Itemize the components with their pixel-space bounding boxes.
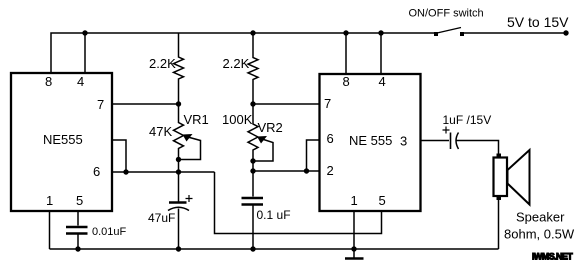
wire: U1 pin 4 riser — [84, 33, 86, 72]
node: VR2 bottom / C2 top junction — [250, 168, 255, 173]
node: pin6 jog junction — [304, 168, 309, 173]
svg-text:8: 8 — [45, 74, 52, 89]
svg-text:6: 6 — [93, 164, 100, 179]
node: U2 pin1 on ground rail — [351, 246, 356, 251]
svg-text:6: 6 — [327, 131, 334, 146]
wire: U1 pin 2 stub to pin 6 wire — [113, 140, 126, 172]
wire: +V rail from U1 pin 8 to switch — [51, 33, 435, 72]
node: C1 bottom on ground rail — [176, 246, 181, 251]
wire: ground rail — [50, 248, 499, 250]
node: VR1 wiper bottom junction — [176, 157, 181, 162]
node: supply terminal dot — [563, 30, 568, 35]
svg-text:2.2K: 2.2K — [223, 56, 250, 71]
wire: U1 pin 1 to ground rail — [49, 212, 51, 250]
node: R2/VR2/pin7 junction — [250, 101, 255, 106]
svg-text:1uF /15V: 1uF /15V — [443, 113, 492, 127]
potentiometer VR1 47K — [174, 104, 201, 172]
node: R2 top junction on +V rail — [250, 30, 255, 35]
svg-text:1: 1 — [351, 193, 358, 208]
svg-text:8: 8 — [343, 74, 350, 89]
wire: U1 pin 6 run — [113, 171, 215, 173]
svg-text:0.1 uF: 0.1 uF — [257, 208, 291, 222]
svg-text:5V to 15V: 5V to 15V — [507, 14, 569, 30]
svg-text:NE555: NE555 — [43, 132, 83, 147]
svg-text:47K: 47K — [149, 124, 172, 139]
svg-text:NE 555: NE 555 — [349, 133, 392, 148]
node: U1 pin 4 junction on +V rail — [82, 30, 87, 35]
speaker LS1 — [494, 150, 530, 205]
wire: U2 pin 1 to ground — [353, 212, 355, 259]
op-amp U2 NE555 box — [320, 74, 421, 211]
wire: U2 pin 4 riser — [380, 33, 382, 73]
wire: U1 pin 7 to R1/VR1 junction — [113, 103, 179, 105]
svg-text:8ohm, 0.5W: 8ohm, 0.5W — [504, 227, 575, 242]
svg-text:100K: 100K — [222, 112, 253, 127]
svg-text:4: 4 — [379, 74, 386, 89]
wire: U2 pin 8 riser — [345, 33, 347, 73]
node: R1/VR1/pin7 junction — [176, 101, 181, 106]
node: U2 pin 4 junction on +V rail — [378, 30, 383, 35]
wire: U2 pin 6 jog — [307, 140, 319, 171]
capacitor C4 1uF/15V — [443, 127, 459, 150]
capacitor C1 47uF — [168, 172, 193, 249]
wire: U2 pin 7 to R2/VR2 junction — [253, 103, 319, 105]
svg-text:Speaker: Speaker — [516, 210, 565, 225]
svg-text:2: 2 — [327, 163, 334, 178]
svg-text:7: 7 — [324, 96, 331, 111]
svg-text:4: 4 — [77, 74, 84, 89]
capacitor C2 0.1uF — [242, 171, 264, 249]
node: pin2 stub junction — [123, 169, 128, 174]
capacitor C3 0.01uF — [66, 212, 88, 250]
resistor R1 2.2K — [174, 33, 184, 104]
node: C2 bottom on ground rail — [250, 246, 255, 251]
svg-text:1: 1 — [46, 193, 53, 208]
resistor R2 2.2K — [248, 33, 258, 104]
svg-text:5: 5 — [76, 193, 83, 208]
op-amp U1 NE555 box — [11, 73, 112, 211]
svg-text:2.2K: 2.2K — [149, 56, 176, 71]
ground symbol — [345, 257, 364, 259]
svg-text:IWMS.NET: IWMS.NET — [532, 252, 573, 262]
wire: U1 pin6 node to U2 pin 5 — [215, 172, 382, 234]
potentiometer VR2 100K — [248, 104, 273, 171]
svg-text:ON/OFF switch: ON/OFF switch — [409, 8, 484, 20]
svg-text:5: 5 — [379, 193, 386, 208]
wire: C4 to speaker — [457, 141, 499, 158]
svg-text:7: 7 — [97, 97, 104, 112]
svg-text:3: 3 — [400, 134, 407, 149]
svg-text:VR2: VR2 — [258, 120, 283, 135]
wire: speaker to ground rail — [498, 200, 500, 249]
node: VR2 wiper bottom junction — [250, 158, 255, 163]
svg-text:0.01uF: 0.01uF — [92, 226, 127, 238]
wire: +V rail from switch to supply terminal — [463, 32, 566, 34]
svg-text:VR1: VR1 — [184, 112, 209, 127]
node: VR1 bottom / C1 top junction — [176, 169, 181, 174]
node: U2 pin 8 junction on +V rail — [343, 30, 348, 35]
svg-text:47uF: 47uF — [148, 211, 175, 225]
wire: U2 pin 3 output — [422, 140, 450, 142]
switch S1 ON/OFF — [434, 28, 464, 37]
wire: VR2 bottom to U2 pin 2 — [253, 170, 319, 172]
node: C3 bottom on ground rail — [75, 246, 80, 251]
